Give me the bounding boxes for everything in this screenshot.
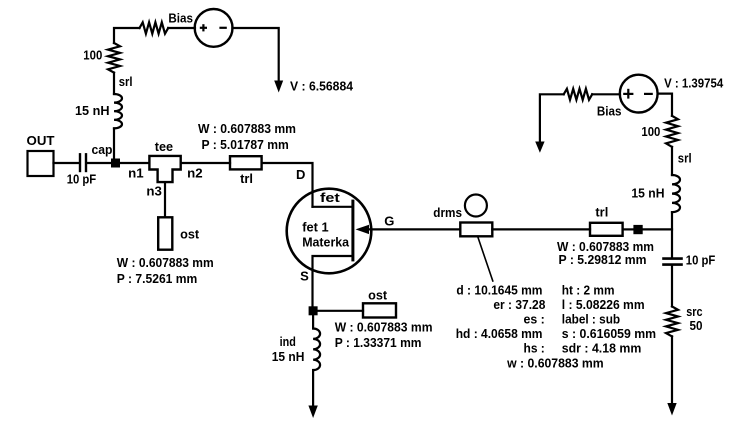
svg-text:n2: n2 [187, 166, 203, 181]
svg-text:S: S [300, 269, 309, 284]
wire resistor to inductor srl left [113, 73, 115, 94]
resistor srl 100 (left) [108, 43, 120, 73]
wire resistor to inductor right [671, 147, 673, 175]
svg-text:P : 1.33371 mm: P : 1.33371 mm [335, 335, 422, 350]
transmission line trl (right) [590, 223, 623, 236]
wire node S to inductor ind [312, 315, 314, 328]
drms component box [460, 223, 492, 237]
svg-text:srl: srl [678, 150, 692, 165]
ground arrow bottom right [667, 403, 676, 416]
resistor src 50 [666, 307, 678, 337]
wire gate to drms [368, 228, 460, 230]
svg-text:w : 0.607883 mm: w : 0.607883 mm [506, 355, 604, 370]
voltage source Bias (left) [195, 9, 233, 47]
svg-text:srl: srl [119, 74, 133, 89]
svg-text:sdr : 4.18 mm: sdr : 4.18 mm [562, 341, 642, 356]
drms leader line [478, 236, 493, 281]
svg-text:15 nH: 15 nH [75, 103, 110, 118]
svg-text:OUT: OUT [27, 133, 55, 148]
svg-text:10 pF: 10 pF [67, 171, 97, 186]
wire trl to fet drain node D [262, 163, 313, 207]
resistor (bias 1 network) [140, 22, 169, 33]
ground arrow V node left [274, 81, 283, 93]
wire trl right to node junction [623, 228, 634, 230]
node n1 junction [111, 159, 120, 168]
svg-text:label : sub: label : sub [562, 312, 620, 327]
svg-text:fet: fet [320, 190, 341, 205]
ground arrow left of Bias right [540, 94, 564, 142]
svg-text:d : 10.1645 mm: d : 10.1645 mm [456, 283, 542, 298]
svg-text:G: G [384, 214, 394, 229]
svg-text:n1: n1 [128, 166, 144, 181]
wire node S to ost stub 2 [318, 310, 363, 312]
port OUT [28, 151, 54, 176]
voltage source Bias (right) [620, 75, 658, 113]
tee component [149, 156, 180, 182]
svg-text:Materka: Materka [302, 235, 350, 250]
fet channel bar [351, 201, 354, 260]
wire resistor to bias source V1 [168, 27, 195, 29]
node junction right [633, 225, 642, 234]
wire OUT to capacitor [54, 162, 79, 164]
open stub ost (tee branch) [158, 217, 172, 249]
inductor srl 15 nH (right) [672, 175, 680, 212]
svg-text:fet 1: fet 1 [302, 220, 328, 235]
svg-text:drms: drms [433, 205, 462, 220]
svg-text:er : 37.28: er : 37.28 [493, 297, 545, 312]
svg-text:P : 5.01787 mm: P : 5.01787 mm [202, 137, 289, 152]
wire src to ground arrow right [671, 336, 673, 403]
svg-text:src: src [686, 304, 702, 319]
resistor (bias 2 network) [564, 89, 593, 100]
svg-text:50: 50 [690, 318, 703, 333]
svg-text:ind: ind [280, 334, 296, 349]
svg-text:V : 1.39754: V : 1.39754 [664, 76, 724, 91]
svg-text:hd : 4.0658 mm: hd : 4.0658 mm [456, 326, 543, 341]
fet drain lead [313, 206, 353, 208]
svg-text:ht : 2 mm: ht : 2 mm [562, 283, 615, 298]
wire drms to trl right [492, 228, 590, 230]
svg-text:W : 0.607883 mm: W : 0.607883 mm [335, 320, 433, 335]
wire inductor to node n1 [113, 128, 115, 160]
wire inductor ind to ground arrow [312, 370, 314, 406]
wire tee n3 to ost stub [164, 182, 166, 217]
svg-text:P : 5.29812 mm: P : 5.29812 mm [559, 252, 647, 267]
plus sign of Bias right [623, 89, 633, 99]
transmission line trl (left) [230, 156, 262, 169]
wire bias right to rail [658, 94, 672, 116]
svg-text:cap: cap [92, 142, 113, 157]
svg-text:15 nH: 15 nH [272, 349, 305, 364]
svg-text:hs :: hs : [524, 341, 545, 356]
svg-text:W : 0.607883 mm: W : 0.607883 mm [117, 255, 214, 270]
inductor srl 15 nH (left) [114, 94, 122, 128]
svg-text:trl: trl [595, 205, 608, 220]
minus sign of Bias left [219, 27, 226, 29]
svg-text:100: 100 [641, 124, 660, 139]
gate arrowhead into fet [356, 225, 370, 234]
capacitor 10 pF right plates [664, 257, 682, 260]
fet source lead [313, 256, 353, 307]
svg-text:15 nH: 15 nH [631, 186, 664, 201]
capacitor cap 10 pF plates [79, 154, 81, 171]
fet U1 circle [287, 189, 372, 274]
svg-text:ost: ost [368, 288, 388, 303]
svg-text:100: 100 [83, 48, 102, 63]
svg-text:Bias: Bias [597, 103, 622, 118]
drms circle [465, 195, 487, 217]
wire node n1 to tee [120, 162, 149, 164]
svg-text:W : 0.607883 mm: W : 0.607883 mm [198, 121, 296, 136]
ground arrow below ind [308, 406, 317, 419]
wire bias source to ground arrow [232, 28, 278, 81]
svg-text:V : 6.56884: V : 6.56884 [290, 79, 354, 94]
svg-text:10 pF: 10 pF [686, 253, 716, 268]
inductor ind 15 nH [313, 329, 320, 371]
resistor srl 100 (right) [666, 116, 678, 147]
node S junction [309, 306, 318, 315]
wire resistor to bias source right [592, 93, 620, 95]
minus sign of Bias right [644, 93, 653, 95]
svg-text:P : 7.5261 mm: P : 7.5261 mm [117, 271, 198, 286]
open stub ost (source) [363, 303, 396, 317]
svg-text:s : 0.616059 mm: s : 0.616059 mm [562, 326, 656, 341]
svg-text:Bias: Bias [168, 10, 193, 25]
wire top-left corner to bias resistor [114, 28, 140, 43]
svg-text:D: D [296, 167, 305, 182]
plus sign of Bias left [200, 24, 207, 31]
svg-text:trl: trl [240, 171, 253, 186]
svg-text:es :: es : [524, 312, 545, 327]
wire capacitor to resistor src [671, 266, 673, 307]
wire tee n2 to trl [181, 162, 230, 164]
wire node to right rail [643, 228, 672, 230]
wire inductor to capacitor right rail [671, 212, 673, 257]
svg-text:l : 5.08226 mm: l : 5.08226 mm [562, 297, 645, 312]
wire capacitor to node n1 [87, 162, 112, 164]
svg-text:ost: ost [180, 227, 200, 242]
svg-text:n3: n3 [146, 184, 162, 199]
svg-text:tee: tee [155, 139, 173, 154]
